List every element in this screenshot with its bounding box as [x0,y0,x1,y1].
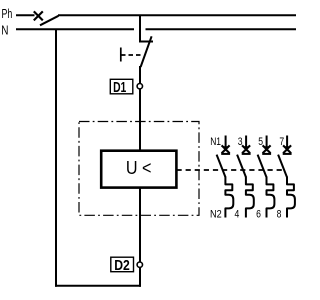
undervoltage relay U1 box [101,151,176,188]
svg-text:8: 8 [277,209,282,221]
pole 1 N1/N2 [210,136,233,221]
wire pole 2 lower [246,177,254,218]
switch blade Q main [40,16,59,25]
svg-text:N: N [1,24,8,38]
terminal D2 [137,262,142,267]
pole 4 (7/8) [277,136,295,221]
contact X pole 2 [242,145,250,153]
dashed linkage from relay to poles [177,169,284,171]
wire bottom horizontal [55,285,141,287]
pole 3 (5/6) [256,136,274,221]
contact X pole 4 [283,145,291,153]
wire N line right segment [146,28,297,30]
contact X pole 1 [222,145,230,153]
wire D1 to relay box [139,89,141,151]
pole 2 (3/4) [235,136,254,221]
wire Ph line right segment [58,14,296,16]
contact X on Ph line [34,11,43,20]
svg-text:4: 4 [235,209,240,221]
label box D1 [110,79,133,96]
wire pole 4 lower [287,177,295,218]
terminal D1 [137,84,142,89]
wire N line left segment [16,28,134,30]
svg-text:Ph: Ph [2,7,13,21]
wire Ph line left segment [16,14,35,16]
contact blade main [141,36,152,67]
blade pole 2 [237,155,246,177]
terminal arrow 5 [266,136,268,150]
wire blade to D1 [139,66,141,84]
contact X pole 3 [263,145,271,153]
dash-dot enclosure box [79,122,199,216]
wire pole 3 lower [267,177,275,218]
fixed contact bar pole 3 [262,153,271,155]
blade pole 1 [217,155,226,177]
svg-text:U <: U < [126,158,152,178]
fixed contact bar pole 1 [221,153,230,155]
terminal arrow 7 [286,136,288,150]
fixed contact bar pole 2 [242,153,251,155]
label box D2 [111,257,134,274]
wire vertical from Ph to contact [140,15,153,41]
wire D2 to bottom [139,268,141,287]
svg-text:D1: D1 [113,79,126,96]
svg-text:N1: N1 [210,136,221,148]
terminal arrow N1 [225,136,227,150]
svg-text:N2: N2 [210,209,222,221]
actuator dashed link [121,54,141,56]
blade pole 4 [278,155,287,177]
terminal arrow 3 [245,136,247,150]
svg-text:D2: D2 [114,257,130,274]
wire pole 1 lower [225,177,233,218]
svg-text:6: 6 [256,209,261,221]
blade pole 3 [258,155,267,177]
fixed contact bar pole 4 [283,153,292,155]
wire left vertical from N [55,29,57,287]
wire relay to D2 [139,187,141,262]
actuator bar [120,48,122,62]
